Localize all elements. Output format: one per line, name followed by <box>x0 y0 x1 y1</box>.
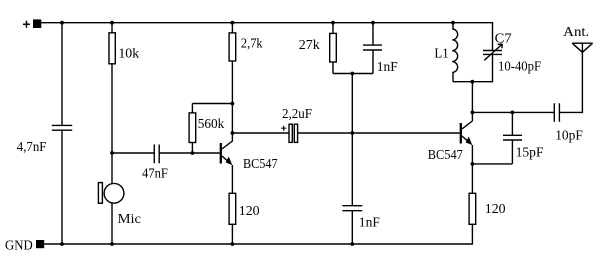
node dot bottom rail 4,7nF <box>60 242 64 246</box>
svg-text:560k: 560k <box>198 117 225 132</box>
svg-text:120: 120 <box>485 202 506 217</box>
node dot collector Q1 junction <box>231 131 235 135</box>
node dot emitter Q2 junction <box>471 162 475 166</box>
node dot tank bottom junction <box>471 80 475 84</box>
svg-text:GND: GND <box>5 239 33 254</box>
capacitor 10pF <box>554 103 559 122</box>
svg-text:10pF: 10pF <box>555 129 583 144</box>
svg-text:120: 120 <box>239 204 260 219</box>
node + terminal <box>33 19 41 28</box>
node dot bottom rail 1nF <box>350 242 354 246</box>
resistor 560k <box>191 104 193 154</box>
svg-text:1nF: 1nF <box>359 215 380 230</box>
node dot bottom rail Mic <box>110 242 114 246</box>
svg-text:1nF: 1nF <box>377 60 398 75</box>
wire 27k/1nF bottom junction <box>333 73 373 75</box>
node dot bottom rail 120 <box>231 242 235 246</box>
wire 2,2uF to base Q2 <box>298 132 460 134</box>
resistor 10k <box>111 23 113 153</box>
capacitor C7 10-40pF variable <box>453 51 502 82</box>
capacitor 1nF (top) <box>363 23 382 74</box>
node dot mic/base junction <box>110 151 114 155</box>
node dot top rail 2,7k <box>231 21 235 25</box>
svg-text:10-40pF: 10-40pF <box>498 59 541 74</box>
microphone Mic <box>111 153 113 244</box>
resistor 120 (Q2 emitter) <box>469 193 476 224</box>
svg-text:C7: C7 <box>495 32 512 47</box>
node GND terminal <box>36 240 44 248</box>
wire tank to collector Q2 <box>471 82 473 121</box>
capacitor 1nF (bottom) <box>342 206 362 244</box>
node dot top rail 1nF <box>371 21 375 25</box>
svg-text:2,7k: 2,7k <box>241 37 263 52</box>
node dot collector Q2 junction <box>471 111 475 115</box>
svg-text:BC547: BC547 <box>243 157 278 172</box>
wire collector Q2 output line <box>472 111 554 113</box>
resistor 27k <box>332 23 334 74</box>
capacitor 2,2uF electrolytic <box>289 124 292 142</box>
svg-text:2,2uF: 2,2uF <box>282 107 312 122</box>
node dot 27k/1nF junction <box>350 72 354 76</box>
svg-text:15pF: 15pF <box>516 146 544 161</box>
svg-text:27k: 27k <box>299 38 320 53</box>
inductor L1 <box>452 23 454 29</box>
transistor Q2 BC547 <box>460 123 462 144</box>
capacitor 15pF <box>503 112 522 163</box>
transistor Q1 BC547 <box>220 143 222 164</box>
wire emitter Q2 to 15pF bottom <box>472 163 512 165</box>
wire top supply rail <box>41 23 492 51</box>
capacitor 4,7nF <box>52 23 72 244</box>
svg-text:47nF: 47nF <box>142 167 168 182</box>
node dot top rail 27k <box>331 21 335 25</box>
node dot 560k top junction <box>231 102 235 106</box>
svg-text:4,7nF: 4,7nF <box>17 140 47 155</box>
wire mid vertical node <box>351 74 353 206</box>
svg-text:L1: L1 <box>434 47 448 62</box>
wire bottom ground rail <box>44 224 472 244</box>
node dot base Q1 junction <box>191 151 195 155</box>
antenna Ant. <box>559 43 592 112</box>
wire base line Q1 <box>112 152 220 154</box>
node dot top rail 4,7nF <box>60 21 64 25</box>
resistor 2,7k <box>231 23 233 133</box>
wire collector Q1 to 2,2uF <box>232 132 289 134</box>
resistor 120 (Q1 emitter) <box>229 193 236 224</box>
node dot signal junction <box>350 131 354 135</box>
node dot top rail 10k <box>110 21 114 25</box>
node dot 15pF top junction <box>511 111 515 115</box>
svg-text:Mic: Mic <box>118 212 141 227</box>
+ sign at supply <box>23 21 30 28</box>
svg-text:BC547: BC547 <box>428 148 463 163</box>
capacitor 47nF <box>154 145 159 164</box>
svg-text:10k: 10k <box>118 47 139 62</box>
wire 560k top to collector <box>192 103 232 105</box>
svg-text:Ant.: Ant. <box>563 25 589 40</box>
node dot top rail L1 <box>451 21 455 25</box>
